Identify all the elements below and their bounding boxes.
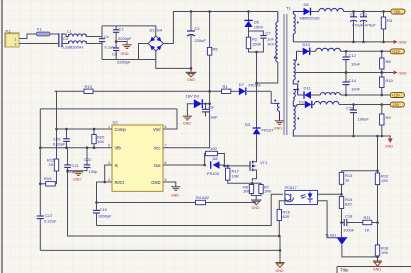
svg-text:D3: D3 [245, 122, 251, 127]
wire Y-cap column [115, 26, 117, 60]
svg-text:C12: C12 [349, 53, 357, 58]
svg-text:MBR20100: MBR20100 [300, 16, 321, 21]
wire C4 to choke bottom [62, 43, 69, 45]
svg-text:Is: Is [115, 163, 118, 168]
capacitor C17 2.2uF [37, 186, 57, 250]
resistor R13b 1k [339, 172, 353, 184]
bridge rectifier D1~D4 [148, 28, 163, 52]
svg-text:Vref: Vref [153, 127, 161, 132]
wire TL431 anode [342, 245, 378, 257]
zener D9 18V [186, 94, 203, 109]
resistor R3 [381, 10, 393, 43]
svg-text:18V D9: 18V D9 [186, 94, 200, 99]
wire C4 to choke top [62, 34, 69, 37]
transformer secondary winding S1 [293, 12, 303, 42]
svg-text:2: 2 [15, 43, 17, 47]
fuse F1 [36, 27, 50, 36]
wire R13b to R14 [341, 184, 343, 196]
wire bridge DC+ to top rail [163, 12, 277, 44]
wire Comp pin 1 [57, 128, 108, 130]
svg-text:1K: 1K [365, 228, 370, 233]
svg-text:GND: GND [121, 52, 129, 56]
svg-text:220mH: 220mH [70, 45, 83, 50]
wire D6 to L2 [311, 11, 319, 13]
wire P1 pin1 to fuse [19, 34, 36, 39]
diode D3 FR107 (drain clamp) [245, 122, 274, 134]
ground aux winding [275, 121, 284, 125]
wire sense resistors to ground [252, 194, 262, 196]
port +12V output [390, 49, 404, 54]
capacitor C4 (X-cap) [59, 33, 72, 49]
svg-text:C8: C8 [209, 105, 215, 110]
resistor R18 10K [375, 245, 389, 256]
resistor R7 [259, 185, 272, 194]
capacitor C9 470uF [350, 10, 357, 43]
svg-text:D6: D6 [304, 2, 310, 7]
svg-text:R3: R3 [387, 18, 393, 23]
capacitor C2 220uF [187, 12, 206, 70]
transistor VT1 MOSFET [247, 160, 268, 182]
transformer aux winding [275, 103, 280, 120]
power ground primary return [275, 263, 284, 273]
wire AC bottom rail [102, 59, 156, 61]
diode D6 MBR20100 [300, 2, 321, 20]
svg-text:U2: U2 [113, 120, 119, 125]
inductor L1 common-mode choke [69, 34, 87, 44]
resistor R14 620 [339, 197, 353, 209]
wire choke top to Cx column [86, 36, 102, 38]
transformer core [284, 14, 287, 135]
wire divider top (to out3 return column) [341, 171, 343, 173]
wire R16 to wire A [278, 221, 280, 237]
svg-text:R5: R5 [213, 47, 219, 52]
resistor R17 10R [226, 166, 240, 180]
svg-text:-15V: -15V [392, 103, 400, 107]
svg-text:F1: F1 [37, 27, 42, 32]
svg-text:+12V: +12V [392, 50, 401, 54]
svg-text:C7: C7 [266, 31, 272, 36]
wire gate right node [218, 154, 225, 166]
resistor R2 150K [246, 37, 261, 49]
feedback column [377, 136, 379, 261]
svg-text:10R: 10R [232, 174, 239, 179]
inductor L2 [319, 8, 344, 11]
capacitor C15 100uF [346, 103, 369, 137]
svg-text:TL431: TL431 [325, 233, 337, 238]
svg-text:10uF: 10uF [351, 62, 361, 67]
wire clamp top [248, 12, 250, 21]
capacitor C11 470uF [352, 10, 376, 43]
svg-text:2200pF: 2200pF [118, 36, 132, 41]
port +15V output [390, 93, 404, 98]
svg-text:PC817: PC817 [285, 185, 298, 190]
wire startup column to Vcc pin [167, 55, 210, 148]
svg-text:150V: 150V [254, 25, 264, 30]
svg-text:1000pF: 1000pF [98, 214, 112, 219]
wire output1 return [293, 41, 393, 43]
wire AC top rail [102, 26, 156, 36]
svg-text:+5V: +5V [394, 10, 401, 14]
resistor R13 [84, 84, 93, 94]
svg-text:C3: C3 [112, 52, 118, 57]
power ground port output1 [394, 40, 407, 45]
svg-text:GND: GND [183, 122, 191, 126]
svg-text:GND: GND [399, 41, 407, 45]
connector P1 [5, 29, 19, 48]
capacitor C14 [343, 71, 361, 96]
wire Is sense line [97, 202, 257, 204]
resistor R6 [243, 185, 254, 194]
port +5V output [391, 9, 405, 14]
svg-text:100uF: 100uF [358, 117, 370, 122]
svg-text:D11: D11 [304, 86, 312, 91]
diode D12 [299, 100, 312, 109]
wire feedback lower (Vfb riser) [39, 109, 41, 186]
svg-text:10nF: 10nF [351, 87, 361, 92]
diode D5 [244, 20, 263, 30]
inductor L5 [314, 101, 339, 104]
wire diode to drain [256, 134, 258, 160]
node Vcc zener tap [208, 102, 211, 105]
wire A (upper return) [68, 171, 281, 236]
svg-text:GND: GND [171, 194, 179, 198]
svg-text:Out: Out [154, 163, 162, 168]
resistor R8 [380, 50, 392, 74]
svg-text:12K: 12K [381, 178, 388, 183]
svg-text:10K: 10K [381, 250, 388, 255]
node startup column top [208, 10, 211, 13]
resistor R5 startup [207, 47, 218, 56]
diode D7 FR103 (vcc series) [239, 82, 261, 95]
svg-text:L1: L1 [67, 29, 72, 34]
svg-text:C2: C2 [195, 26, 201, 31]
wire C19 bottom to opto [97, 194, 284, 225]
svg-text:100p: 100p [89, 169, 99, 174]
wire to Y ground [116, 42, 127, 45]
svg-text:5: 5 [165, 178, 167, 182]
svg-text:Vcc: Vcc [154, 146, 161, 151]
svg-text:10K: 10K [97, 139, 104, 144]
capacitor C18 100nF [342, 214, 363, 233]
svg-text:1k: 1k [345, 178, 349, 183]
svg-text:R4 A02: R4 A02 [196, 195, 210, 200]
capacitor C3 2200pF [112, 48, 131, 65]
svg-text:C11: C11 [360, 12, 368, 17]
svg-text:GND: GND [151, 180, 160, 185]
svg-text:1KV: 1KV [267, 42, 275, 47]
port -15V output [390, 102, 404, 107]
svg-text:Vfb: Vfb [115, 146, 122, 151]
wire opto left-bottom to R16 [279, 201, 285, 210]
svg-text:220uF: 220uF [195, 38, 207, 43]
svg-text:470uF 470uF: 470uF 470uF [352, 23, 376, 28]
wire gate node riser [204, 154, 207, 166]
wire to gate [224, 165, 247, 167]
capacitor C20 0.33uF [53, 129, 70, 148]
svg-text:P1: P1 [6, 29, 12, 34]
svg-text:D8: D8 [213, 156, 219, 161]
svg-text:C19: C19 [100, 207, 108, 212]
wire ret2 to gnd port [346, 72, 394, 74]
svg-text:+15V: +15V [392, 94, 401, 98]
svg-text:GND: GND [73, 178, 81, 182]
svg-text:C21: C21 [72, 163, 80, 168]
capacitor C21 100pF [64, 148, 79, 174]
power ground port output3 [385, 136, 393, 149]
capacitor C8 10uF [202, 103, 218, 120]
wire Rt/Ct pin 4 column [97, 182, 108, 203]
svg-text:Title: Title [340, 268, 349, 273]
svg-text:R11: R11 [364, 215, 372, 220]
wire output1 rail [344, 11, 393, 13]
svg-text:150K: 150K [252, 42, 262, 47]
svg-text:D1~D4: D1~D4 [150, 28, 163, 33]
svg-text:GND: GND [276, 269, 284, 273]
svg-text:C18: C18 [345, 214, 353, 219]
svg-text:VT1: VT1 [260, 160, 268, 165]
node primary bottom to drain [255, 82, 258, 85]
title block [337, 267, 411, 273]
resistor R1 [222, 84, 231, 94]
svg-text:0.22uF: 0.22uF [44, 219, 57, 224]
svg-text:GND: GND [252, 206, 260, 210]
svg-text:Cx: Cx [104, 34, 109, 39]
transformer secondary winding S3 [293, 90, 297, 137]
resistor R16 620 [277, 210, 291, 221]
node C2 top [190, 10, 193, 13]
wire P1 pin2 to X-cap C4 [19, 43, 58, 45]
svg-text:D7: D7 [239, 82, 245, 87]
svg-text:FR103: FR103 [207, 171, 220, 176]
svg-text:R8: R8 [386, 59, 392, 64]
svg-text:C15: C15 [346, 106, 354, 111]
wire opto right-top to divider [318, 193, 342, 195]
resistor R19 [39, 171, 57, 186]
svg-text:D10: D10 [303, 42, 311, 47]
svg-text:3: 3 [108, 161, 110, 165]
wire opto right-bottom to TL431 [318, 201, 337, 238]
resistor R11b [380, 103, 392, 137]
node Y-cap midpoint [115, 40, 118, 43]
svg-text:T1: T1 [286, 6, 291, 11]
svg-text:GND: GND [373, 268, 381, 272]
ground IC pin5 [171, 187, 181, 198]
svg-text:FR107: FR107 [262, 128, 275, 133]
wire sense node split [251, 183, 253, 184]
wire primary bottom [257, 62, 278, 83]
wire GND pin 5 [168, 182, 176, 187]
wire R14 to TL431 / C18 node [341, 209, 343, 238]
svg-text:1K: 1K [49, 162, 54, 167]
svg-text:620: 620 [283, 214, 290, 219]
sheet left border [1, 0, 3, 273]
capacitor Cx 0.1uF [99, 34, 115, 50]
node primary polarity dot [274, 57, 276, 59]
svg-text:1: 1 [108, 125, 110, 129]
resistor R12 12K [375, 173, 389, 185]
wire Vfb pin 2 [40, 147, 107, 149]
ground bridge negative [186, 72, 197, 76]
wire A/B to primary ground [279, 249, 282, 252]
capacitor C12 10uF [343, 50, 361, 74]
svg-text:2200pF: 2200pF [117, 60, 131, 65]
inductor L3 [316, 48, 341, 51]
svg-text:7: 7 [165, 144, 167, 148]
wire IC Out pin [167, 164, 205, 166]
svg-text:1: 1 [15, 38, 17, 42]
svg-text:R13: R13 [85, 84, 93, 89]
ground Y-cap midpoint [122, 45, 131, 49]
capacitor C22 100pF [78, 148, 98, 174]
svg-text:10uF: 10uF [209, 115, 219, 120]
diode D10 [303, 42, 311, 55]
wire startup column upper [209, 12, 211, 48]
transformer primary winding [276, 12, 278, 63]
wire fuse to X-cap C4 [51, 33, 59, 35]
svg-text:C22: C22 [84, 157, 92, 162]
wire Is pin 3 [105, 165, 108, 182]
svg-text:1R0: 1R0 [243, 189, 251, 194]
svg-text:R9: R9 [386, 115, 392, 120]
wire zener branch [203, 103, 210, 105]
wire Cx column vertical [101, 26, 103, 60]
wire B (lower return) [40, 249, 280, 251]
svg-text:8: 8 [165, 125, 167, 129]
wire drain vertical [256, 52, 258, 128]
svg-text:Comp: Comp [115, 127, 127, 132]
optocoupler U3 PC817 [285, 185, 318, 205]
svg-text:4: 4 [108, 178, 110, 182]
diode D8 FR103 (gate) [207, 156, 220, 176]
svg-text:6: 6 [165, 161, 167, 165]
svg-text:C9: C9 [350, 12, 356, 17]
svg-text:C17: C17 [45, 213, 53, 218]
wire Vcc rail (aux supply) [54, 91, 274, 103]
ground Vcc zener [183, 116, 192, 120]
transformer secondary winding S2 [293, 51, 297, 95]
resistor R10 [380, 71, 394, 96]
node clamp top [247, 10, 250, 13]
wire choke bottom to Cx column [86, 43, 102, 45]
capacitor C7 1nF 1KV [260, 31, 275, 47]
svg-text:GND: GND [385, 145, 393, 149]
resistor R20 10K (comp-vfb) [92, 128, 105, 149]
wire Vref pin to divider rail [168, 109, 178, 129]
svg-text:100nF: 100nF [343, 228, 355, 233]
ground comp network [73, 171, 83, 182]
svg-text:C1: C1 [119, 27, 125, 32]
power ground TL431 [373, 261, 382, 272]
resistor R15 1K [47, 158, 59, 172]
wire clamp split [248, 27, 250, 37]
svg-text:R1: R1 [223, 84, 229, 89]
ground sense resistors [251, 200, 262, 210]
resistor R gate 100 [206, 146, 218, 156]
svg-text:0.33uF: 0.33uF [53, 142, 66, 147]
svg-text:C14: C14 [349, 78, 357, 83]
power ground port output2 [394, 71, 407, 76]
svg-text:620: 620 [345, 202, 352, 207]
wire output3 return [293, 135, 388, 137]
svg-text:R19: R19 [44, 176, 52, 181]
node Vcc rail junction [208, 90, 211, 93]
svg-text:2: 2 [108, 144, 110, 148]
capacitor C19 100pF [93, 203, 112, 226]
svg-text:GND: GND [399, 71, 407, 75]
resistor R11 1K [363, 215, 378, 233]
capacitor C1 2200pF [113, 27, 132, 42]
svg-text:Rt/Ct: Rt/Ct [115, 180, 125, 185]
svg-text:1R0: 1R0 [264, 189, 272, 194]
svg-text:D12: D12 [299, 100, 307, 105]
wire D10 line [297, 50, 391, 52]
wire feedback upper (to Vcc rail leg) [56, 91, 58, 159]
wire D11 line (out3a) [298, 94, 391, 96]
wire R17 bottom to sense node [228, 180, 253, 183]
wire bridge DC- [156, 51, 191, 72]
svg-text:R10: R10 [386, 78, 394, 83]
diode D11 [304, 86, 312, 99]
wire S2 centre tap return [295, 72, 346, 74]
svg-text:GND: GND [274, 127, 282, 131]
svg-text:GND: GND [187, 78, 195, 82]
op-amp U2 UC3842 [108, 120, 168, 192]
svg-text:100: 100 [210, 146, 217, 151]
svg-text:0.1uF: 0.1uF [105, 45, 116, 50]
wire clamp bottom join [249, 38, 264, 52]
wire D12 line (out3b) [297, 104, 391, 106]
inductor L4 [320, 93, 340, 96]
resistor R4 (Is filter) [196, 195, 210, 205]
TL431 U4 [325, 233, 347, 245]
